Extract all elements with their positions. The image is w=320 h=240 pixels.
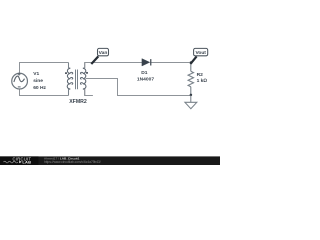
ground: [185, 96, 197, 109]
svg-text:60 Hz: 60 Hz: [33, 85, 46, 91]
CircuitLab logo: [4, 156, 32, 164]
label D1 1N4007: [137, 70, 154, 82]
primary coil crossover knots: [70, 72, 73, 84]
CircuitLab logo dark panel: [0, 156, 39, 165]
transformer core: [76, 70, 78, 90]
wire center tap: [86, 79, 191, 96]
svg-text:XFMR2: XFMR2: [69, 99, 87, 105]
wire primary bottom: [20, 89, 69, 96]
resistor R2: [188, 63, 193, 96]
svg-text:D1: D1: [141, 70, 148, 76]
voltage source V1: [12, 73, 28, 89]
svg-text:LAB: LAB: [22, 160, 31, 165]
transformer XFMR2 primary coil: [67, 68, 70, 89]
svg-text:1N4007: 1N4007: [137, 76, 154, 82]
svg-text:Van: Van: [99, 50, 108, 56]
wire primary top: [20, 63, 69, 74]
wire diode to Vout node: [150, 62, 191, 64]
secondary coil crossover knots: [80, 72, 83, 84]
phase dot primary: [65, 72, 67, 74]
wire secondary bottom stub: [85, 89, 93, 95]
footer watermark bar: [0, 156, 220, 165]
node Van label box: [98, 48, 109, 55]
svg-text:V1: V1: [33, 71, 39, 77]
node Van flag pointer: [91, 56, 98, 64]
svg-text:R2: R2: [197, 72, 204, 78]
node Vout flag pointer: [190, 56, 196, 64]
svg-text:Vout: Vout: [195, 50, 206, 56]
svg-text:sine: sine: [33, 78, 43, 84]
label R2 1 kOhm: [197, 72, 208, 84]
junction node bottom: [190, 94, 193, 97]
node Vout label box: [194, 48, 208, 55]
svg-text:https://www.circuitlab.com/c/6: https://www.circuitlab.com/c/6c4a79b43/: [44, 160, 101, 164]
wire secondary top to diode: [85, 63, 142, 68]
diode D1: [142, 59, 151, 66]
transformer XFMR2 secondary terminals: [84, 63, 86, 96]
label V1 sine 60 Hz: [33, 71, 46, 91]
junction node top (Vout): [190, 61, 192, 63]
transformer XFMR2 primary terminals: [68, 63, 70, 96]
phase dot secondary: [86, 72, 88, 74]
footer text: [44, 157, 101, 164]
transformer XFMR2 secondary coil: [83, 68, 86, 89]
svg-text:1 kΩ: 1 kΩ: [197, 78, 208, 84]
